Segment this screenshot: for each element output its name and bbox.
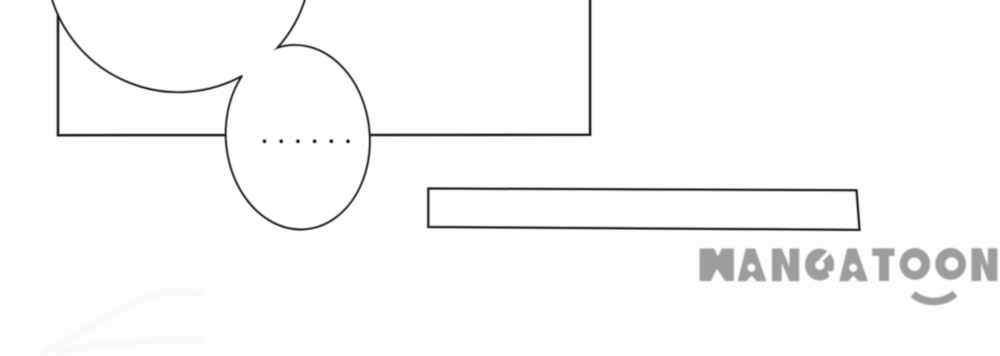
M: [700, 249, 734, 282]
smile: [913, 294, 955, 302]
A: [738, 249, 767, 282]
T: [872, 248, 894, 256]
N: [772, 249, 799, 282]
O: [900, 248, 930, 280]
N: [972, 248, 998, 281]
speech bubble union: big circle bubble + ellipse bubble: [51, 0, 369, 229]
faint sketch artifact bottom-left: [45, 292, 200, 352]
G: [805, 249, 834, 281]
dots "......" in ellipse bubble: [262, 139, 350, 143]
panel border (comic frame): [58, 0, 590, 135]
MANGATOON watermark logo: [700, 248, 998, 301]
O: [935, 248, 966, 280]
caption box (empty narration box): [428, 189, 859, 230]
A: [839, 249, 868, 282]
